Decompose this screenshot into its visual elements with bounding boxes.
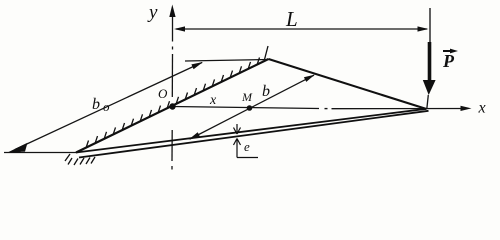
L dimension right arrowhead [418,26,429,31]
svg-text:L: L [285,7,298,31]
clamped wide edge of plate [76,59,269,153]
top right edge of plate [269,59,427,109]
x-axis centerline dot [325,108,328,110]
L dimension right extension line [429,8,431,43]
svg-text:y: y [147,2,158,23]
vector bar over P [443,50,454,52]
bottom edge lower line [79,111,429,158]
svg-text:b: b [92,96,100,113]
svg-text:b: b [262,83,270,100]
support hatching below left vertex [65,154,95,165]
L dimension left arrowhead [174,26,185,31]
e dimension lower arrow with bracket [234,139,259,158]
x-axis centerline long dash to arrow [332,108,467,110]
svg-text:x: x [209,93,217,108]
x-axis arrowhead [461,106,472,111]
b0 upper-right arrowhead [191,62,203,69]
b dimension line [190,75,314,139]
extension below P to vertex [427,95,429,109]
x-axis solid segment O through M [173,107,320,109]
b0 lower-left arrowhead [8,143,28,153]
svg-text:x: x [478,100,486,117]
svg-text:O: O [158,86,168,101]
L dimension line [176,28,427,30]
node O dot [169,103,175,109]
svg-text:P: P [442,51,455,71]
b0 dimension line [15,63,202,150]
svg-text:e: e [244,139,250,154]
bottom edge upper line [76,109,427,153]
left extension line at wide end [4,152,76,154]
svg-text:M: M [241,90,253,104]
y-axis arrowhead [169,5,175,18]
node M dot [247,105,253,111]
svg-text:o: o [103,99,110,114]
force P arrow shaft [428,42,432,81]
y-axis centerline [171,15,174,170]
b upper-right arrowhead [304,75,315,82]
hatching along clamped edge [86,46,268,148]
e dimension upper arrow [234,124,241,134]
force P arrowhead [423,80,436,95]
b lower-left arrowhead [189,132,201,139]
apex extension line [185,60,269,62]
